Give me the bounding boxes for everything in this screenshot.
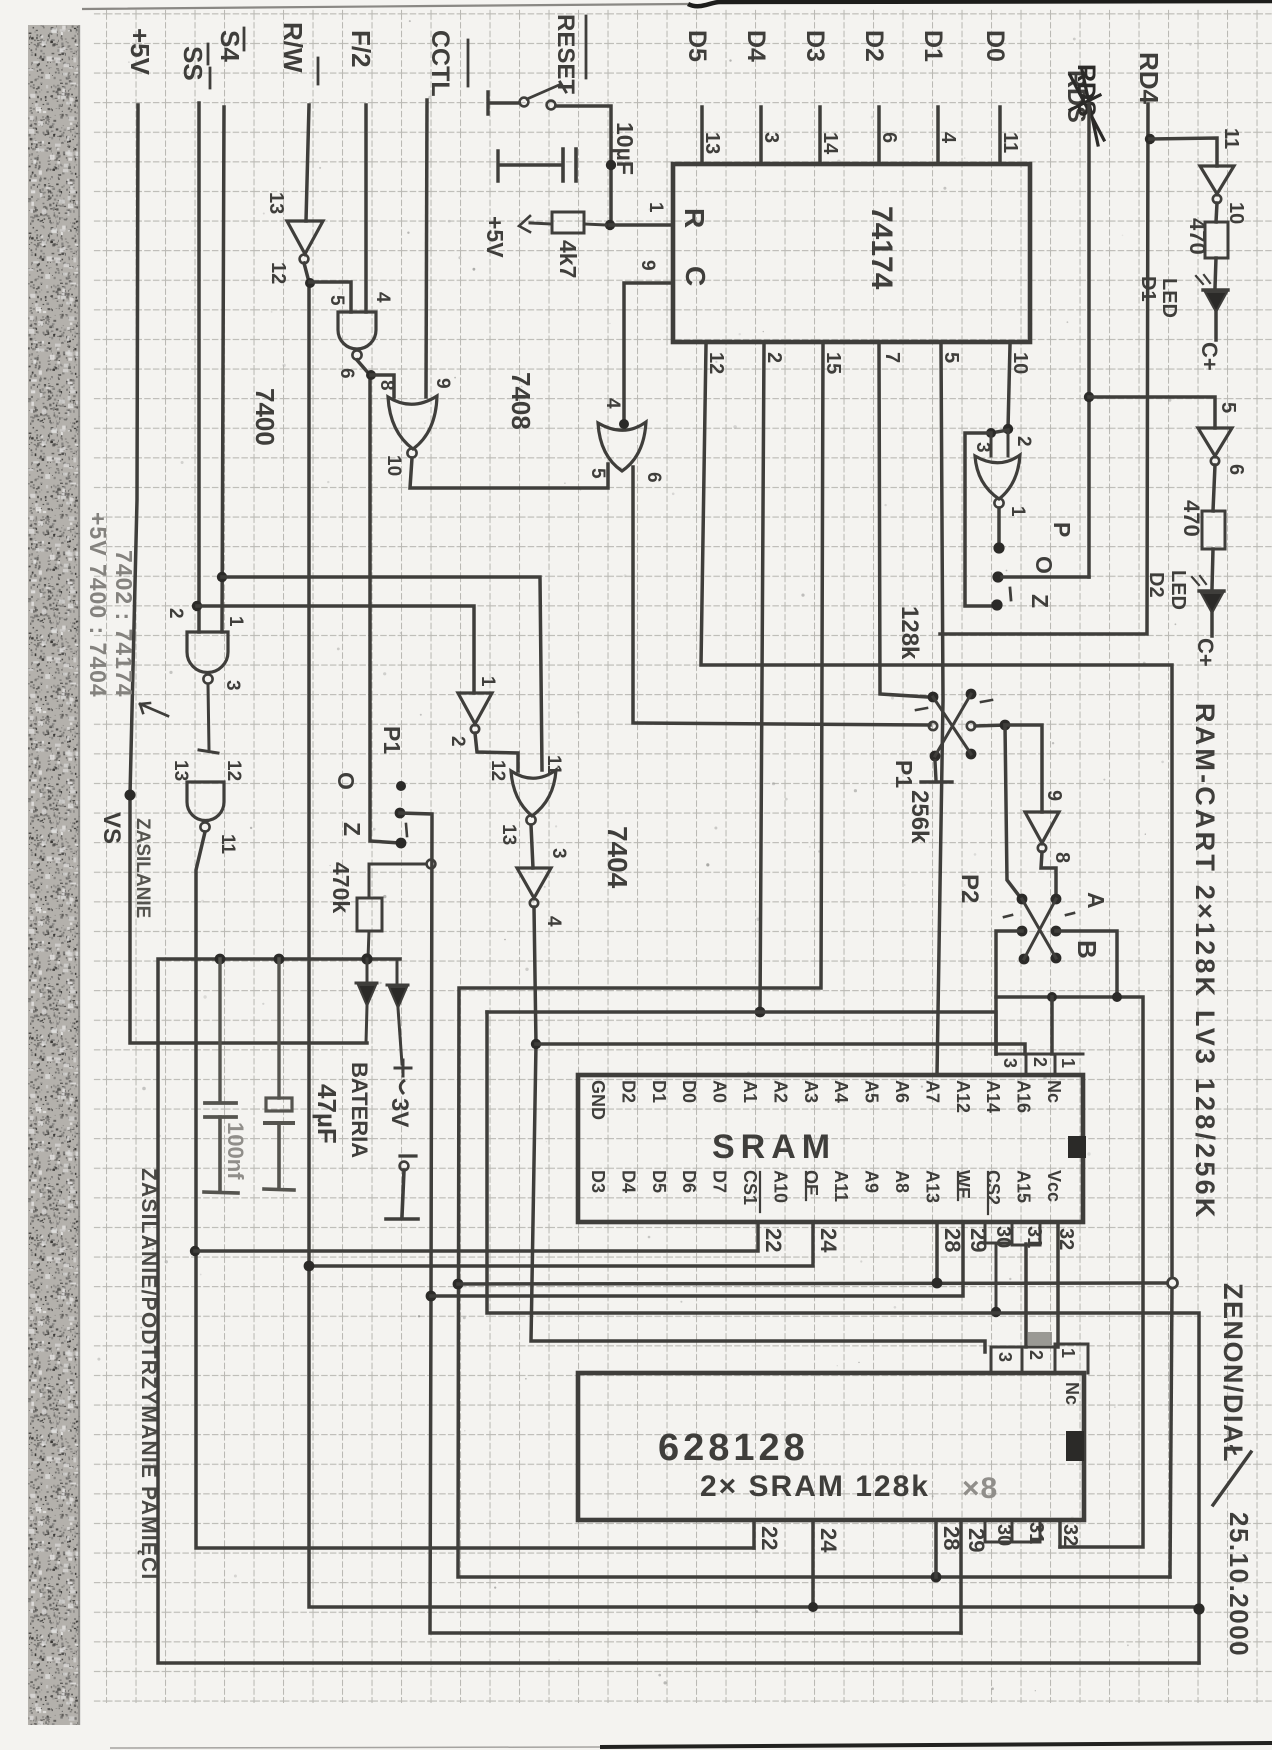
junction S4 branch bbox=[217, 572, 227, 582]
svg-text:A5: A5 bbox=[862, 1080, 882, 1103]
wire O contact to RDS line bbox=[1002, 575, 1089, 579]
wire node to inverter 9 bbox=[1005, 725, 1042, 812]
wire D5 input stub bbox=[700, 107, 704, 164]
svg-text:P: P bbox=[1049, 522, 1075, 537]
svg-text:D1: D1 bbox=[919, 30, 947, 62]
svg-text:ZENON/DIAŁ: ZENON/DIAŁ bbox=[1218, 1283, 1248, 1463]
svg-text:A10: A10 bbox=[770, 1170, 790, 1203]
svg-text:R/W: R/W bbox=[278, 22, 308, 73]
junction inv out bbox=[305, 278, 315, 288]
switch S (reset) bbox=[520, 98, 529, 107]
wire P2 MR to bus bbox=[1056, 931, 1117, 997]
svg-text:D1: D1 bbox=[1137, 276, 1159, 302]
svg-text:5: 5 bbox=[940, 352, 962, 363]
wire 74174 pin7 to P1 bbox=[879, 345, 928, 697]
wire P2 ML to SRAM1 pin3 bbox=[996, 931, 1022, 1054]
junction pin15 bus3 bbox=[453, 1279, 464, 1290]
svg-text:47µF: 47µF bbox=[312, 1084, 342, 1144]
wire pin1 R to 74174 bbox=[610, 223, 672, 227]
svg-text:D7: D7 bbox=[710, 1170, 730, 1193]
wire D0 input stub bbox=[998, 107, 1002, 164]
junction 4k7 node bbox=[605, 220, 615, 230]
jumper P2 X bbox=[1017, 894, 1028, 905]
wire S5 vertical bbox=[197, 103, 201, 632]
junction pin4 entry bbox=[619, 419, 629, 429]
scanner noise band left edge bbox=[28, 25, 80, 1725]
wire RDS to inverter 5 bbox=[1089, 397, 1215, 428]
inverter U 11-10 bbox=[1200, 166, 1234, 194]
svg-text:22: 22 bbox=[757, 1526, 782, 1550]
svg-text:P1: P1 bbox=[891, 760, 917, 788]
wire D3 input stub bbox=[818, 107, 822, 164]
svg-text:F/2: F/2 bbox=[346, 30, 376, 68]
svg-text:470k: 470k bbox=[328, 862, 354, 913]
svg-text:11: 11 bbox=[217, 834, 238, 855]
svg-text:P2: P2 bbox=[956, 874, 983, 903]
svg-text:A14: A14 bbox=[983, 1080, 1003, 1113]
svg-text:12: 12 bbox=[267, 262, 289, 284]
capacitor 47uF plates bbox=[277, 959, 280, 1098]
capacitor 100nF bbox=[218, 959, 221, 1102]
svg-text:3: 3 bbox=[548, 848, 569, 859]
svg-text:11: 11 bbox=[999, 132, 1021, 153]
svg-text:1: 1 bbox=[1007, 506, 1028, 517]
svg-text:128k: 128k bbox=[896, 606, 923, 660]
svg-text:A8: A8 bbox=[892, 1170, 912, 1193]
svg-text:74174: 74174 bbox=[865, 206, 898, 290]
svg-text:C+: C+ bbox=[1197, 342, 1222, 371]
notch mark SRAM2 bbox=[1066, 1431, 1084, 1461]
pin 30 stub SRAM1 bbox=[985, 1222, 1012, 1312]
smudge above pin2 bbox=[1028, 1332, 1052, 1346]
svg-text:1: 1 bbox=[1058, 1348, 1078, 1358]
svg-text:2: 2 bbox=[447, 736, 468, 747]
wire D2 input stub bbox=[877, 107, 881, 164]
junction VS on +5V bbox=[125, 790, 136, 801]
svg-text:+5V 7400 : 7404: +5V 7400 : 7404 bbox=[85, 512, 111, 698]
wire bus y1045 bbox=[536, 1044, 1025, 1054]
svg-text:7402 : 74174: 7402 : 74174 bbox=[111, 550, 137, 698]
capacitor C 10uF bbox=[563, 149, 576, 181]
wire D4 input stub bbox=[759, 107, 763, 164]
svg-text:24: 24 bbox=[816, 1228, 841, 1253]
wire left leg to Z bbox=[965, 433, 996, 606]
svg-text:4: 4 bbox=[602, 398, 623, 409]
svg-text:3: 3 bbox=[1000, 1058, 1020, 1068]
junction rail dots bbox=[215, 954, 226, 965]
svg-text:2: 2 bbox=[1026, 1350, 1046, 1360]
op IC 74174 box bbox=[673, 164, 1030, 342]
svg-text:CS1: CS1 bbox=[740, 1170, 760, 1205]
resistor 470 (D2) bbox=[1202, 511, 1225, 549]
svg-text:5: 5 bbox=[1217, 402, 1239, 413]
node VS arrow bbox=[140, 703, 168, 716]
resistor 470k bbox=[427, 860, 436, 869]
svg-text:+5V: +5V bbox=[125, 28, 155, 76]
svg-text:A0: A0 bbox=[710, 1080, 730, 1103]
svg-text:3: 3 bbox=[222, 680, 243, 691]
resistor 4k7 bbox=[552, 212, 584, 233]
nor U 12-13-11 (7404 area) bbox=[511, 770, 556, 816]
pin 24 stub SRAM1 bbox=[309, 1222, 813, 1266]
svg-text:GND: GND bbox=[588, 1080, 608, 1120]
svg-text:LED: LED bbox=[1158, 278, 1180, 318]
jumper P0 contacts bbox=[993, 542, 1004, 553]
svg-text:3: 3 bbox=[760, 132, 782, 143]
svg-text:13: 13 bbox=[265, 192, 287, 214]
wire nand out node bbox=[357, 360, 400, 843]
wire RD4 vertical bbox=[940, 104, 1148, 634]
svg-text:A4: A4 bbox=[831, 1080, 851, 1103]
svg-text:A6: A6 bbox=[892, 1080, 912, 1103]
wire pin31 to SRAM2 pin2 bbox=[1024, 1244, 1028, 1347]
LED D2 bbox=[1199, 589, 1224, 592]
svg-text:7404: 7404 bbox=[602, 826, 633, 889]
wire P1 MR to node bbox=[975, 725, 1005, 726]
junction sram2 pin28 bbox=[931, 1572, 942, 1583]
wire inv4 out down bbox=[531, 907, 985, 1352]
wire F/2 vertical bbox=[364, 105, 368, 312]
LED D1 bbox=[1203, 288, 1228, 291]
svg-text:Z: Z bbox=[1027, 594, 1053, 608]
wire SRAM1 Vcc pin32 up bbox=[1050, 997, 1054, 1054]
svg-text:2: 2 bbox=[1013, 436, 1034, 447]
svg-text:2: 2 bbox=[165, 608, 186, 619]
svg-text:A13: A13 bbox=[922, 1170, 942, 1203]
junction RD4 to LED branch bbox=[1145, 134, 1155, 144]
svg-text:A11: A11 bbox=[831, 1170, 851, 1202]
wire pin9 C from 74174 to gate bbox=[624, 283, 672, 425]
notch mark SRAM1 bbox=[1068, 1136, 1086, 1158]
svg-text:4k7: 4k7 bbox=[555, 240, 581, 278]
svg-text:2: 2 bbox=[1030, 1057, 1050, 1067]
svg-text:A3: A3 bbox=[801, 1080, 821, 1103]
svg-text:8: 8 bbox=[376, 380, 397, 391]
wire CCTL vertical bbox=[426, 100, 427, 397]
wire gate out to P contact bbox=[997, 508, 1001, 544]
wire R/W vertical top bbox=[306, 105, 309, 221]
svg-text:1: 1 bbox=[1058, 1058, 1078, 1068]
wire to inverter 11 bbox=[1150, 138, 1217, 166]
svg-text:4: 4 bbox=[543, 916, 564, 927]
pin 29 stub SRAM1 bbox=[431, 1222, 963, 1296]
wire bus3 to ring bbox=[458, 1283, 1167, 1284]
svg-text:29: 29 bbox=[966, 1228, 991, 1252]
op IC SRAM2 box bbox=[578, 1373, 1084, 1520]
jumper P1v contacts bbox=[396, 781, 406, 791]
svg-text:9: 9 bbox=[1043, 790, 1065, 801]
junction pin10 node bbox=[1003, 424, 1013, 434]
inverter U 3-4 (7404) bbox=[517, 868, 551, 898]
junction vcc1 bbox=[1047, 992, 1057, 1002]
wire inv8 out to P2 TR bbox=[1041, 852, 1056, 897]
svg-text:7: 7 bbox=[881, 352, 903, 363]
diode D3 bbox=[356, 959, 377, 983]
svg-text:32: 32 bbox=[1059, 1524, 1081, 1546]
junction RW bus24 bbox=[304, 1261, 315, 1272]
svg-text:D3: D3 bbox=[588, 1170, 608, 1193]
svg-text:Nc: Nc bbox=[1044, 1080, 1064, 1103]
wire S4 vertical bbox=[222, 107, 224, 632]
pin 28 stub SRAM2 bbox=[934, 1520, 938, 1577]
svg-text:C: C bbox=[680, 266, 711, 286]
svg-text:A16: A16 bbox=[1014, 1080, 1034, 1113]
svg-text:3: 3 bbox=[995, 1352, 1015, 1362]
svg-text:D5: D5 bbox=[683, 30, 711, 62]
wire R/W inverted down bbox=[304, 263, 1199, 1607]
svg-text:RD4: RD4 bbox=[1134, 52, 1164, 105]
scan edge line bottom bbox=[600, 1743, 1272, 1747]
wire to resistor 470 bbox=[1216, 203, 1217, 222]
svg-text:10µF: 10µF bbox=[612, 122, 638, 175]
wire node to P2 TL bbox=[1005, 725, 1020, 897]
ground (P1) bbox=[921, 761, 952, 782]
pin boxes 3 2 1 top bbox=[996, 1054, 1083, 1075]
battery BATERIA 3V bbox=[398, 1008, 402, 1064]
pin 29 stub SRAM2 bbox=[959, 1520, 963, 1633]
svg-text:256k: 256k bbox=[906, 790, 933, 844]
wire nor out to gate pin5 bbox=[410, 458, 608, 488]
svg-text:+5V: +5V bbox=[482, 216, 508, 258]
svg-text:P1: P1 bbox=[379, 726, 405, 754]
wire Vcc bus bbox=[996, 997, 1143, 1547]
svg-text:6: 6 bbox=[336, 368, 357, 379]
op IC SRAM1 box bbox=[578, 1075, 1083, 1222]
nand U 5-4-6 (7400) bbox=[338, 312, 376, 349]
svg-text:25.10.2000: 25.10.2000 bbox=[1224, 1512, 1254, 1657]
junction P1 centre bus bbox=[426, 1291, 437, 1302]
wire bus y1012 bbox=[487, 1012, 996, 1054]
wire RDS vertical bbox=[1087, 104, 1091, 577]
svg-text:D3: D3 bbox=[801, 30, 829, 62]
wire nand1 out to nand2 bbox=[199, 684, 218, 753]
svg-text:CS2: CS2 bbox=[983, 1170, 1003, 1205]
svg-text:1: 1 bbox=[645, 202, 666, 213]
svg-text:7408: 7408 bbox=[506, 372, 536, 430]
wire +5V vertical bbox=[130, 105, 367, 1043]
svg-text:3V: 3V bbox=[386, 1098, 413, 1127]
svg-text:31: 31 bbox=[1025, 1522, 1047, 1544]
junction S5 branch bbox=[192, 601, 202, 611]
svg-text:CCTL: CCTL bbox=[426, 30, 454, 97]
svg-text:D0: D0 bbox=[981, 30, 1009, 62]
wire pin15 net bbox=[458, 345, 1170, 1577]
svg-text:ZASILANIE: ZASILANIE bbox=[132, 818, 153, 918]
junction inv4 bus bbox=[531, 1039, 541, 1049]
svg-text:12: 12 bbox=[487, 760, 508, 781]
svg-text:Vcc: Vcc bbox=[1044, 1170, 1064, 1202]
diode D4 bbox=[387, 959, 408, 985]
svg-text:9: 9 bbox=[637, 260, 658, 271]
svg-text:C+: C+ bbox=[1193, 638, 1218, 667]
pin 28 stub SRAM1 bbox=[935, 1222, 939, 1283]
junction cap top bbox=[606, 160, 616, 170]
svg-text:S4: S4 bbox=[215, 30, 245, 62]
svg-text:WE: WE bbox=[953, 1170, 973, 1199]
junction node X bbox=[1000, 720, 1011, 731]
junction x1199 bbox=[1193, 1603, 1204, 1614]
svg-text:2: 2 bbox=[763, 352, 785, 363]
wire bus y988-1313 net bbox=[487, 1012, 1199, 1663]
svg-text:5: 5 bbox=[587, 468, 608, 479]
svg-text:22: 22 bbox=[761, 1228, 786, 1252]
svg-text:D4: D4 bbox=[618, 1170, 638, 1193]
svg-text:4: 4 bbox=[937, 132, 959, 144]
svg-text:×8: ×8 bbox=[962, 1472, 998, 1505]
svg-text:Z: Z bbox=[339, 822, 365, 836]
gate U 4-5-6 (7402 b) bbox=[598, 422, 646, 471]
wire pin5 net bbox=[937, 345, 943, 1075]
svg-text:R: R bbox=[679, 208, 710, 228]
pin 22 stub SRAM1 bbox=[195, 1222, 758, 1251]
svg-text:9: 9 bbox=[432, 378, 453, 389]
svg-text:7400: 7400 bbox=[250, 388, 280, 446]
wire inv2 out to nor12 bbox=[475, 733, 518, 771]
wire to resistor 470 (D2) bbox=[1213, 465, 1215, 511]
wire P1 centre down bbox=[400, 813, 961, 1633]
svg-text:4: 4 bbox=[372, 292, 393, 303]
pin 24 stub SRAM2 bbox=[811, 1520, 815, 1607]
svg-text:OE: OE bbox=[801, 1170, 821, 1196]
inverter U 5-6 bbox=[1198, 428, 1232, 456]
svg-text:628128: 628128 bbox=[658, 1427, 809, 1469]
pin 31 stub SRAM2 bbox=[1012, 1520, 1040, 1542]
svg-text:A15: A15 bbox=[1014, 1170, 1034, 1203]
svg-text:O: O bbox=[1031, 556, 1057, 574]
svg-text:A: A bbox=[1083, 892, 1109, 909]
svg-text:D4: D4 bbox=[742, 30, 770, 62]
svg-text:470: 470 bbox=[1185, 218, 1210, 255]
svg-text:A2: A2 bbox=[770, 1080, 790, 1103]
svg-text:14: 14 bbox=[819, 132, 841, 155]
wire pin12 net lower bbox=[1170, 1288, 1172, 1577]
svg-text:100nf: 100nf bbox=[223, 1122, 248, 1180]
svg-text:A12: A12 bbox=[953, 1080, 973, 1113]
svg-text:11: 11 bbox=[1220, 128, 1242, 149]
junction vcc2 bbox=[1112, 992, 1122, 1002]
svg-text:RESET: RESET bbox=[552, 14, 579, 94]
junction RDS to LED2 branch bbox=[1084, 392, 1094, 402]
svg-text:8: 8 bbox=[1051, 852, 1073, 863]
svg-text:A1: A1 bbox=[740, 1080, 760, 1103]
wire pin2 net bbox=[760, 345, 764, 1012]
svg-text:2× SRAM 128k: 2× SRAM 128k bbox=[700, 1470, 930, 1503]
ground (reset switch) bbox=[488, 92, 518, 114]
wire 74174 pin10 down bbox=[1008, 345, 1010, 429]
svg-text:D2: D2 bbox=[1145, 572, 1167, 598]
svg-text:A7: A7 bbox=[922, 1080, 942, 1103]
pin 22 stub SRAM2 bbox=[752, 1520, 756, 1548]
wire reset node bbox=[556, 106, 611, 222]
wire LED D1 to C+ bbox=[1214, 312, 1218, 340]
resistor 470 (D1) bbox=[1205, 222, 1228, 258]
junction pin2 bus bbox=[755, 1007, 766, 1018]
svg-text:D2: D2 bbox=[618, 1080, 638, 1103]
svg-text:SS: SS bbox=[178, 46, 208, 81]
svg-text:13: 13 bbox=[498, 824, 519, 845]
svg-text:D5: D5 bbox=[649, 1170, 669, 1193]
svg-text:B: B bbox=[1072, 940, 1102, 959]
wire to NOR pin8 bbox=[371, 375, 394, 397]
svg-text:D1: D1 bbox=[649, 1080, 669, 1103]
svg-text:A9: A9 bbox=[862, 1170, 882, 1193]
svg-text:1: 1 bbox=[225, 616, 246, 627]
svg-text:10: 10 bbox=[1009, 352, 1031, 374]
svg-text:Nc: Nc bbox=[1062, 1382, 1082, 1405]
wire S5 to inverter 7404 pin1 bbox=[197, 606, 474, 693]
wire nand2 out down bbox=[196, 832, 754, 1548]
svg-text:5: 5 bbox=[326, 295, 347, 306]
wire pin32 to SRAM2 pin1 bbox=[1056, 1222, 1060, 1347]
svg-text:VS: VS bbox=[98, 812, 125, 844]
wire gate out down and across bbox=[633, 467, 930, 725]
svg-text:D2: D2 bbox=[860, 30, 888, 62]
wire gate input bar bbox=[991, 430, 1008, 433]
svg-text:BATERIA: BATERIA bbox=[347, 1062, 372, 1158]
svg-text:D6: D6 bbox=[679, 1170, 699, 1193]
pin 32 stub SRAM2 bbox=[1058, 1520, 1062, 1547]
junction bus22a bbox=[190, 1246, 200, 1256]
wire to NAND pin5 bbox=[310, 282, 351, 312]
svg-text:D0: D0 bbox=[679, 1080, 699, 1103]
svg-text:RAM-CART 2×128K LV3 128/256K: RAM-CART 2×128K LV3 128/256K bbox=[1190, 703, 1220, 1221]
wire S4 to gate 7402 pin11 bbox=[222, 577, 542, 770]
svg-text:ZASILANIE/PODTRZYMANIE PAMIĘC: ZASILANIE/PODTRZYMANIE PAMIĘCI bbox=[137, 1168, 160, 1580]
svg-text:6: 6 bbox=[878, 132, 900, 143]
power rail bbox=[158, 959, 1199, 1663]
nor U 8-9-10 (7402) bbox=[388, 396, 437, 449]
wire pin12 net bbox=[701, 345, 1172, 1283]
jumper P1 X bbox=[928, 692, 939, 703]
svg-text:1: 1 bbox=[477, 676, 498, 687]
svg-text:15: 15 bbox=[822, 352, 844, 374]
pin boxes 3 2 1 top SRAM2 bbox=[991, 1344, 1088, 1373]
svg-text:470: 470 bbox=[1179, 500, 1204, 537]
pin 30 stub SRAM2 bbox=[985, 1520, 1012, 1542]
node ring junction bbox=[1168, 1278, 1178, 1288]
svg-text:13: 13 bbox=[170, 760, 191, 781]
svg-text:10: 10 bbox=[383, 455, 404, 476]
svg-text:12: 12 bbox=[223, 760, 244, 781]
wire LED D2 to C+ bbox=[1210, 613, 1214, 636]
svg-text:24: 24 bbox=[816, 1528, 841, 1553]
svg-text:13: 13 bbox=[701, 132, 723, 154]
wire nor out to inv3 bbox=[531, 825, 533, 868]
inverter U 9-8 (7404) bbox=[1025, 812, 1059, 843]
svg-text:6: 6 bbox=[1225, 464, 1247, 475]
svg-text:LED: LED bbox=[1167, 570, 1189, 610]
nand U 13-12-11 (7400) bbox=[187, 782, 224, 821]
pin 31 stub SRAM1 bbox=[1012, 1222, 1040, 1245]
wire D1 input stub bbox=[936, 107, 940, 164]
svg-text:6: 6 bbox=[643, 472, 664, 483]
svg-text:O: O bbox=[333, 772, 359, 790]
svg-text:SRAM: SRAM bbox=[712, 1128, 836, 1166]
svg-text:12: 12 bbox=[705, 352, 727, 374]
scan edge line top bbox=[82, 4, 688, 9]
